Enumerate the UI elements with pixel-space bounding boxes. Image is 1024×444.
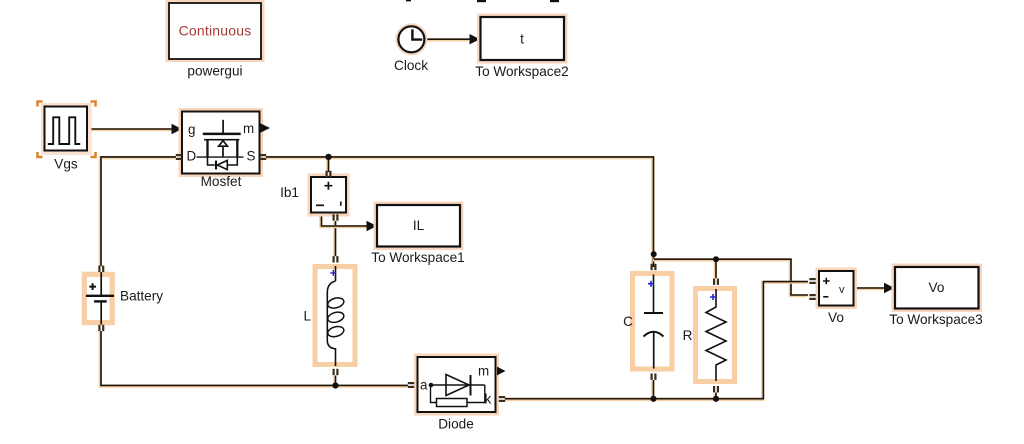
wire output bus C top to Vo minus <box>653 259 808 296</box>
R bottom port pad <box>713 386 719 392</box>
svg-text:Vo: Vo <box>929 280 945 295</box>
svg-text:Vgs: Vgs <box>54 157 78 172</box>
Diode k port pad <box>499 396 505 402</box>
Vgs selection corner brackets <box>38 102 96 158</box>
Ib1 current measurement block <box>308 174 350 217</box>
Ib1 label <box>280 185 299 200</box>
diode snubber branch <box>431 387 485 403</box>
R label <box>683 328 693 343</box>
svg-text:powergui: powergui <box>187 64 242 79</box>
mosfet symbol: gate lead <box>222 120 224 133</box>
Vo plus port pad <box>809 278 815 284</box>
L label <box>303 309 311 324</box>
R top port pad <box>713 279 719 285</box>
svg-text:m: m <box>478 364 489 379</box>
mosfet symbol: D-S line <box>197 156 244 158</box>
Battery block <box>84 272 114 325</box>
mosfet symbol: body diode loop <box>208 157 238 165</box>
Clock label <box>394 58 428 73</box>
wire L bottom to bottom bus <box>333 376 337 387</box>
Vgs pulse generator block <box>41 103 92 155</box>
svg-text:Mosfet: Mosfet <box>201 174 242 189</box>
Mosfet label <box>201 174 242 189</box>
diode output arrow m <box>497 367 506 376</box>
wire battery + up to Mosfet D <box>100 157 176 267</box>
diode k lead down <box>484 385 486 399</box>
node junction C bottom <box>650 396 656 402</box>
To Workspace1 label <box>371 250 464 265</box>
svg-text:Continuous: Continuous <box>179 23 252 39</box>
mosfet symbol: body diode cathode bar <box>215 161 217 170</box>
wire Vgs output to Mosfet gate <box>87 124 182 134</box>
diode triangle <box>446 375 469 396</box>
wire Mosfet S to top bus and down to C <box>265 157 653 268</box>
To Workspace1 block (IL) <box>374 202 464 251</box>
Vo label <box>828 310 844 325</box>
C label <box>623 314 633 329</box>
diode anode dot <box>429 383 434 388</box>
node junction L to bottom bus <box>332 382 338 388</box>
mosfet symbol: right post <box>236 140 238 157</box>
svg-text:Diode: Diode <box>438 417 474 432</box>
Diode block <box>414 354 506 416</box>
Battery top port pad <box>98 266 104 272</box>
Mosfet block <box>179 108 271 177</box>
wire Vo measurement to To Workspace3 <box>853 283 894 293</box>
To Workspace2 block (t) <box>477 14 568 64</box>
Battery bottom port pad <box>98 325 104 331</box>
diode cathode bar <box>470 375 472 396</box>
diode snubber resistor <box>437 399 468 407</box>
svg-text:IL: IL <box>413 218 425 233</box>
svg-text:k: k <box>485 392 492 407</box>
R resistor block <box>696 289 735 382</box>
C capacitor block <box>633 274 673 370</box>
svg-text:C: C <box>623 314 633 329</box>
powergui label <box>187 64 242 79</box>
svg-text:Ib1: Ib1 <box>280 185 299 200</box>
powergui block <box>166 0 265 62</box>
Mosfet D port pad <box>176 154 182 160</box>
wire R top tap from output bus <box>714 259 718 279</box>
C top port pad <box>651 264 657 270</box>
Mosfet S port pad <box>260 154 266 160</box>
Vo minus port pad <box>809 294 815 300</box>
Ib1 top port pad <box>326 171 332 177</box>
Clock block <box>395 23 427 55</box>
wire C bottom to lower bus <box>651 380 655 399</box>
cropped title text remnants at top edge <box>206 0 559 2</box>
L bottom port pad <box>333 369 339 375</box>
node junction R bottom <box>713 396 719 402</box>
node junction output bus at C <box>651 251 657 257</box>
To Workspace3 block (Vo) <box>892 264 983 313</box>
To Workspace3 label <box>889 312 982 327</box>
wire Ib1 signal to IL workspace <box>321 213 377 232</box>
svg-text:Battery: Battery <box>120 289 163 304</box>
svg-text:To Workspace3: To Workspace3 <box>889 312 982 327</box>
svg-text:v: v <box>839 284 845 296</box>
svg-text:Clock: Clock <box>394 58 428 73</box>
mosfet symbol: body diode triangle <box>217 160 227 169</box>
Vgs label <box>54 157 78 172</box>
C bottom port pad <box>651 374 657 380</box>
node junction on top bus at Ib1 <box>325 154 331 160</box>
svg-text:R: R <box>683 328 693 343</box>
svg-text:a: a <box>420 378 428 393</box>
Vo voltage measurement block <box>816 268 858 310</box>
wire Clock to To Workspace2 <box>425 34 480 44</box>
wire battery - to Diode anode (bottom bus) <box>100 331 408 386</box>
mosfet output arrow m <box>261 123 271 132</box>
L inductor block <box>315 266 355 366</box>
svg-text:To Workspace1: To Workspace1 <box>371 250 464 265</box>
L top port pad <box>333 256 339 262</box>
Diode label <box>438 417 474 432</box>
svg-text:t: t <box>520 32 524 47</box>
svg-text:Vo: Vo <box>828 310 844 325</box>
svg-text:m: m <box>243 121 254 136</box>
mosfet symbol: left post <box>206 140 208 157</box>
svg-text:D: D <box>187 149 197 164</box>
wire Diode cathode to lower right bus up to Vo plus <box>504 282 808 400</box>
To Workspace2 label <box>475 64 568 79</box>
svg-text:L: L <box>303 309 311 324</box>
Diode a port pad <box>408 382 414 388</box>
mosfet symbol: body bar <box>204 139 239 141</box>
wire Ib1 minus port down to L <box>333 221 337 257</box>
diode anode line <box>432 384 485 386</box>
node junction output bus at R <box>713 256 719 262</box>
svg-text:g: g <box>188 122 195 137</box>
mosfet symbol: substrate arrow <box>219 141 228 147</box>
wire Ib1 tap from top bus <box>326 157 330 173</box>
svg-text:To Workspace2: To Workspace2 <box>475 64 568 79</box>
Battery label <box>120 289 163 304</box>
mosfet symbol: gate bar <box>203 133 241 136</box>
Ib1 bottom port pad <box>333 214 339 220</box>
wire R bottom to lower bus <box>714 393 718 400</box>
svg-text:S: S <box>247 149 256 164</box>
